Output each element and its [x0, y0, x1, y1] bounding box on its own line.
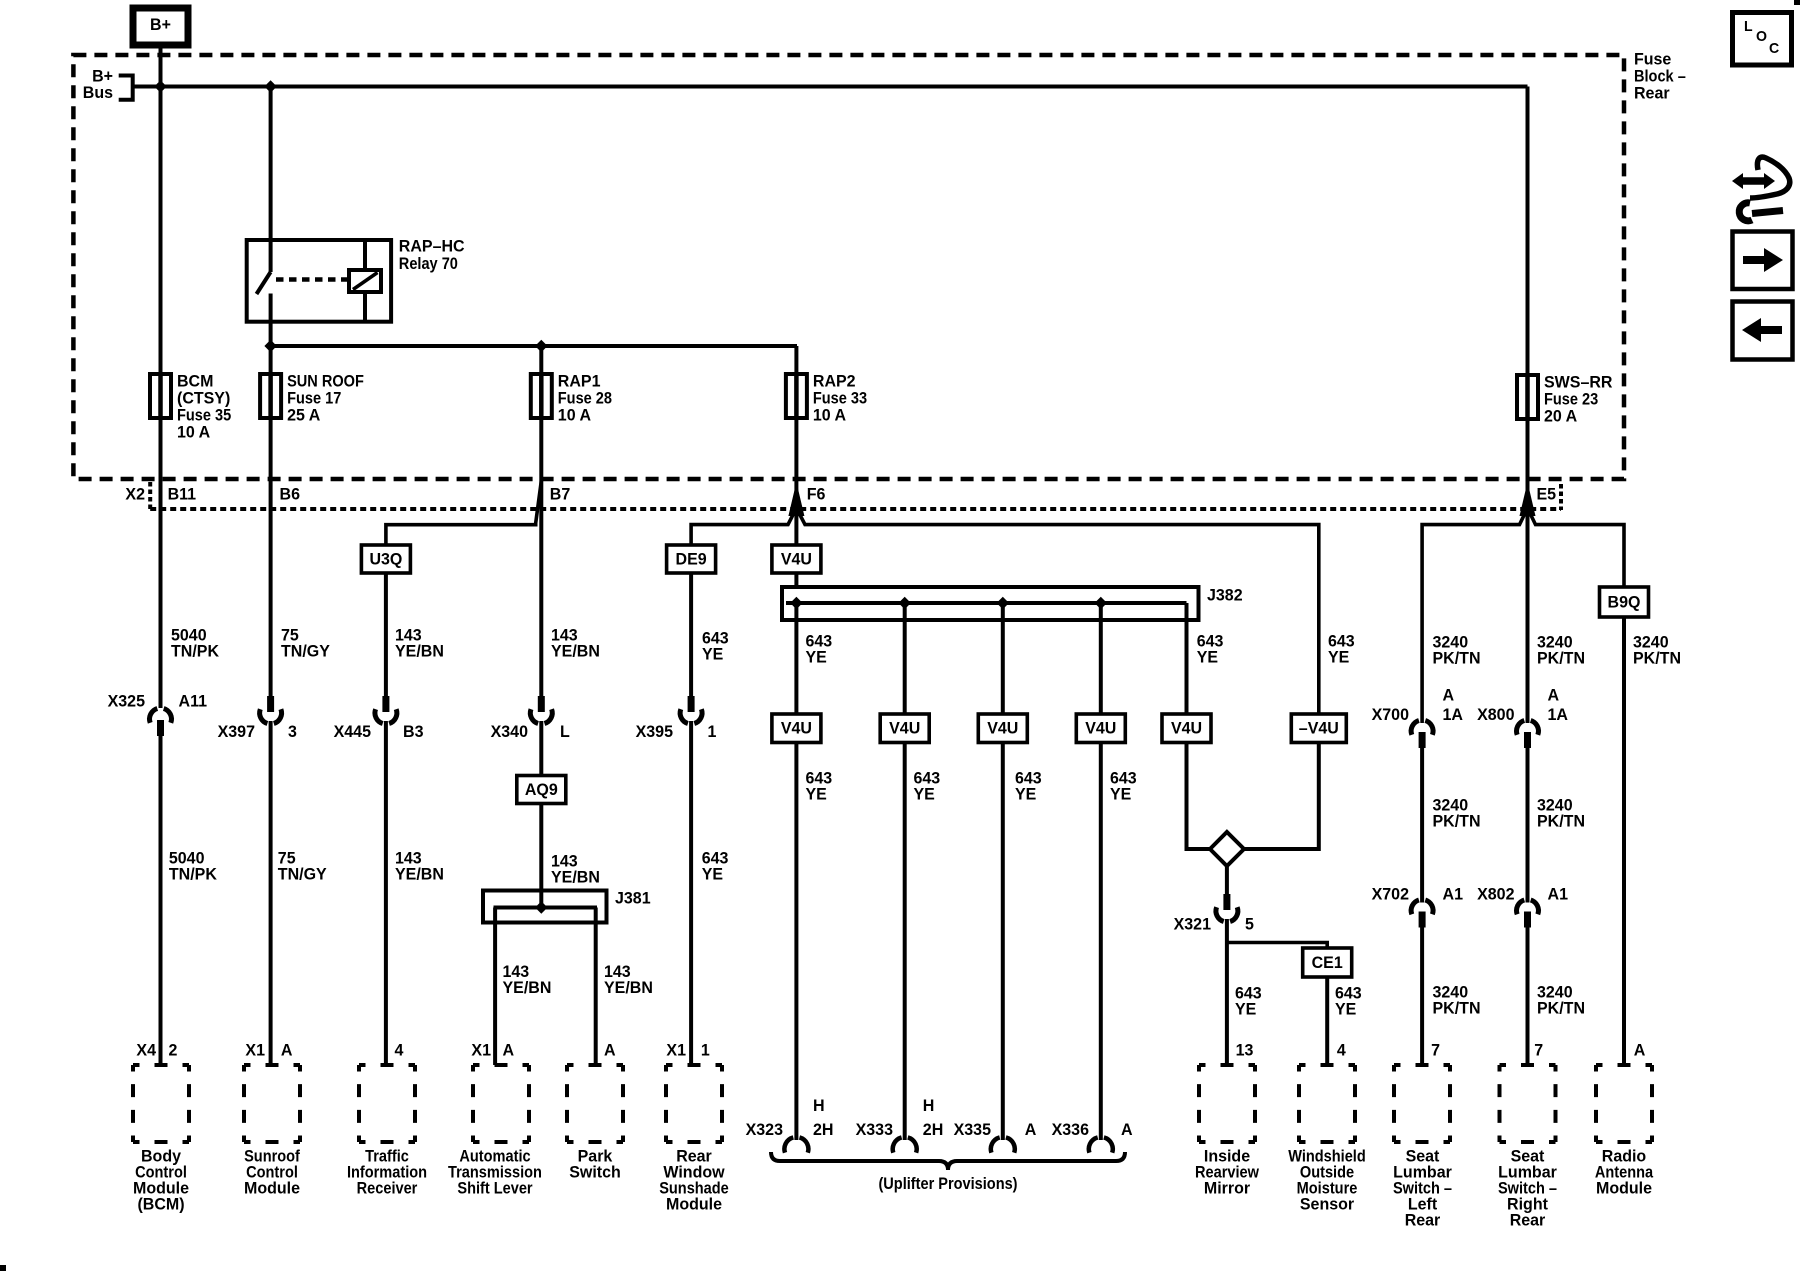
svg-text:YE: YE	[914, 784, 935, 803]
svg-text:A1: A1	[1548, 884, 1569, 903]
node F6 arrow	[788, 482, 804, 516]
fuse RAP1 Fuse 28 10A	[539, 374, 544, 418]
svg-text:X325: X325	[108, 691, 145, 710]
svg-text:A: A	[1025, 1120, 1037, 1139]
wire J382 to V4U row col3	[1001, 603, 1005, 714]
wire J382 to V4U row col4	[1099, 603, 1103, 714]
connector label AQ9	[517, 776, 566, 804]
svg-text:B7: B7	[550, 484, 571, 503]
svg-text:A: A	[1634, 1040, 1646, 1059]
connector label V4U (top)	[772, 545, 821, 573]
svg-text:YE/BN: YE/BN	[551, 867, 600, 886]
svg-text:X335: X335	[954, 1120, 991, 1139]
wire diamond to X321	[1225, 866, 1229, 894]
svg-text:3: 3	[288, 722, 297, 741]
wire branch to CE1	[1227, 943, 1327, 949]
svg-text:13: 13	[1236, 1040, 1254, 1059]
connector X2 band dotted line	[150, 507, 1561, 511]
svg-text:10 A: 10 A	[558, 405, 591, 424]
wire V4U col3 to X335	[1001, 743, 1005, 1141]
component Seat Lumbar Switch - Right Rear	[1500, 1065, 1556, 1142]
svg-text:V4U: V4U	[1171, 719, 1202, 738]
svg-text:V4U: V4U	[889, 719, 920, 738]
svg-text:1: 1	[701, 1040, 710, 1059]
svg-text:2H: 2H	[923, 1120, 944, 1139]
svg-text:Shift Lever: Shift Lever	[457, 1178, 533, 1197]
connector X700 pin A/1A	[1411, 721, 1419, 735]
svg-text:PK/TN: PK/TN	[1537, 998, 1585, 1017]
svg-text:B6: B6	[280, 484, 301, 503]
svg-text:YE: YE	[1335, 999, 1356, 1018]
svg-text:1: 1	[708, 722, 717, 741]
svg-text:YE/BN: YE/BN	[551, 641, 600, 660]
junction node feed/RAP1	[536, 341, 547, 352]
connector label DE9	[667, 545, 716, 573]
page corner mark	[1794, 0, 1800, 5]
svg-text:X445: X445	[334, 722, 371, 741]
svg-text:PK/TN: PK/TN	[1633, 648, 1681, 667]
svg-text:Sensor: Sensor	[1300, 1194, 1355, 1213]
connector X325 pin A11	[150, 709, 158, 723]
connector X340 pin L	[538, 696, 545, 712]
svg-text:Module: Module	[1596, 1178, 1652, 1197]
svg-text:A: A	[1548, 685, 1560, 704]
svg-text:YE: YE	[1015, 784, 1036, 803]
svg-text:Module: Module	[666, 1194, 722, 1213]
svg-text:YE/BN: YE/BN	[503, 978, 552, 997]
connector X336 pin A	[1089, 1137, 1098, 1152]
svg-text:1A: 1A	[1443, 705, 1464, 724]
svg-text:H: H	[923, 1096, 935, 1115]
svg-text:10 A: 10 A	[177, 422, 210, 441]
svg-text:CE1: CE1	[1312, 953, 1343, 972]
wire V4U col1 to X323	[794, 743, 798, 1141]
wire Fuse 33 to V4U	[794, 418, 798, 545]
svg-text:X1: X1	[245, 1040, 265, 1059]
svg-text:7: 7	[1431, 1040, 1440, 1059]
svg-text:L: L	[560, 722, 570, 741]
svg-text:X4: X4	[136, 1040, 156, 1059]
component Traffic Information Receiver	[359, 1065, 415, 1142]
wire feed to Fuse 28	[539, 346, 543, 374]
wire J381 to Automatic Transmission Shift Lever	[493, 908, 497, 1066]
svg-text:X800: X800	[1477, 705, 1514, 724]
fuse BCM (CTSY) Fuse 35 10A	[158, 374, 163, 418]
svg-text:YE: YE	[806, 647, 827, 666]
icon arrow right box	[1733, 232, 1793, 290]
wire Fuse 23 through E5 down	[1526, 419, 1530, 723]
wire X397 to Sunroof Control Module	[269, 721, 273, 1065]
svg-text:Rear: Rear	[1510, 1210, 1546, 1229]
svg-text:X395: X395	[636, 722, 673, 741]
connector X323 pin H/2H	[784, 1137, 793, 1152]
svg-text:YE: YE	[1197, 647, 1218, 666]
svg-text:RAP–HC: RAP–HC	[399, 236, 465, 255]
junction node bus/BCM	[155, 81, 166, 92]
svg-text:V4U: V4U	[987, 719, 1018, 738]
connector X395 pin 1	[688, 696, 695, 712]
svg-text:PK/TN: PK/TN	[1537, 811, 1585, 830]
connector X2 band right terminator	[1559, 484, 1563, 510]
svg-text:7: 7	[1534, 1040, 1543, 1059]
page bottom-left mark	[0, 1265, 6, 1271]
svg-text:O: O	[1756, 28, 1767, 45]
svg-text:X1: X1	[666, 1040, 686, 1059]
wire B+ drop to bus	[159, 55, 163, 87]
wire J381 to Park Switch	[594, 908, 598, 1066]
B+ Bus bracket	[119, 76, 133, 100]
svg-text:A: A	[1443, 685, 1455, 704]
svg-text:YE: YE	[1328, 647, 1349, 666]
wire B+ box to fuse block	[159, 45, 163, 55]
svg-text:YE/BN: YE/BN	[395, 864, 444, 883]
component Inside Rearview Mirror	[1199, 1065, 1255, 1142]
connector X2 band left terminator	[148, 482, 152, 510]
wire X445 to Traffic Information Receiver	[384, 721, 388, 1065]
power feed B+ box	[133, 8, 188, 45]
svg-text:V4U: V4U	[1085, 719, 1116, 738]
connector X397 pin 3	[267, 696, 274, 712]
connector X333 pin H/2H	[893, 1137, 902, 1152]
svg-text:YE: YE	[1235, 999, 1256, 1018]
svg-text:H: H	[813, 1096, 825, 1115]
svg-text:B11: B11	[168, 484, 197, 503]
svg-text:B+: B+	[150, 15, 171, 34]
wire bus to Fuse 35	[159, 87, 163, 375]
svg-text:DE9: DE9	[676, 549, 707, 568]
connector X702 pin A1	[1411, 900, 1419, 914]
wire Fuse 28 to X340	[539, 418, 543, 696]
svg-text:X321: X321	[1174, 914, 1211, 933]
svg-text:TN/GY: TN/GY	[281, 641, 331, 660]
svg-text:2H: 2H	[813, 1120, 834, 1139]
svg-text:YE: YE	[702, 864, 723, 883]
wire V4U col2 to X333	[903, 743, 907, 1141]
wire DE9 to X395	[689, 573, 693, 696]
svg-text:X323: X323	[746, 1120, 783, 1139]
wire V4U col5 to splice diamond	[1187, 743, 1211, 850]
connector label CE1	[1303, 948, 1352, 977]
connector X321 pin 5	[1223, 894, 1230, 910]
svg-text:25 A: 25 A	[287, 405, 320, 424]
svg-text:E5: E5	[1537, 484, 1557, 503]
wire feed to Fuse 33	[794, 346, 798, 374]
svg-text:20 A: 20 A	[1544, 406, 1577, 425]
wire F6 branch to DE9	[691, 508, 796, 545]
fuse SUN ROOF Fuse 17 25A	[268, 374, 273, 418]
component Sunroof Control Module	[244, 1065, 300, 1142]
svg-text:YE/BN: YE/BN	[604, 978, 653, 997]
component Automatic Transmission Shift Lever	[473, 1065, 529, 1142]
wire V4U to J382	[794, 573, 798, 587]
svg-text:X1: X1	[471, 1040, 491, 1059]
wire X395 to Rear Window Sunshade Module	[689, 721, 693, 1065]
svg-text:Relay 70: Relay 70	[399, 254, 458, 273]
svg-text:PK/TN: PK/TN	[1433, 648, 1481, 667]
wire V4U col4 to X336	[1099, 743, 1103, 1141]
wire X802 to Seat Lumbar Switch Right	[1526, 928, 1530, 1066]
brace (Uplifter Provisions)	[771, 1152, 1125, 1170]
wire X800 to X802	[1526, 748, 1530, 903]
svg-text:Rear: Rear	[1405, 1210, 1441, 1229]
wire F6 branch to -V4U	[796, 508, 1318, 714]
wire -V4U to splice diamond	[1244, 743, 1319, 850]
wire B9Q to Radio Antenna Module	[1622, 617, 1626, 1065]
connector X335 pin A	[991, 1137, 1000, 1152]
wire AQ9 to J381	[539, 804, 543, 908]
svg-text:PK/TN: PK/TN	[1537, 648, 1585, 667]
wire E5 branch to B9Q	[1528, 508, 1625, 587]
svg-text:YE: YE	[1110, 784, 1131, 803]
icon arrow left box	[1733, 302, 1793, 360]
wire X702 to Seat Lumbar Switch Left	[1420, 928, 1424, 1066]
wire X325 to BCM	[159, 736, 163, 1065]
connector X802 pin A1	[1517, 900, 1525, 914]
connector X800 pin A/1A	[1517, 721, 1525, 735]
svg-text:B9Q: B9Q	[1608, 592, 1641, 611]
connector label V4U row3	[978, 714, 1027, 743]
component Radio Antenna Module	[1596, 1065, 1652, 1142]
wire feed to RAP1/RAP2 fuses	[271, 344, 797, 348]
wire CE1 to Windshield Outside Moisture Sensor	[1325, 977, 1329, 1065]
svg-text:A11: A11	[179, 691, 208, 710]
connector X445 pin B3	[382, 696, 389, 712]
wire X700 to X702	[1420, 748, 1424, 903]
svg-text:C: C	[1769, 40, 1779, 57]
fuse block - rear outline (dashed)	[73, 55, 1624, 479]
svg-text:Receiver: Receiver	[357, 1178, 418, 1197]
connector label B9Q	[1600, 587, 1649, 617]
wire E5 branch to X700	[1422, 508, 1527, 723]
wire J382 to V4U row col2	[903, 603, 907, 714]
connector label -V4U	[1291, 714, 1346, 743]
svg-text:YE: YE	[702, 644, 723, 663]
svg-text:PK/TN: PK/TN	[1433, 811, 1481, 830]
wire U3Q to X445	[384, 573, 388, 696]
component Park Switch	[567, 1065, 623, 1142]
connector label V4U row2	[880, 714, 929, 743]
component Body Control Module (BCM)	[133, 1065, 189, 1142]
component Rear Window Sunshade Module	[666, 1065, 722, 1142]
icon LOC box	[1733, 13, 1792, 66]
svg-text:X340: X340	[491, 722, 528, 741]
svg-text:X802: X802	[1477, 884, 1514, 903]
svg-text:Mirror: Mirror	[1204, 1178, 1251, 1197]
connector label V4U row1	[772, 714, 821, 743]
svg-text:YE: YE	[806, 784, 827, 803]
svg-text:A: A	[281, 1040, 293, 1059]
svg-text:Bus: Bus	[83, 83, 113, 102]
junction node relay output/feed	[265, 341, 276, 352]
svg-text:YE/BN: YE/BN	[395, 641, 444, 660]
splice diamond node	[1210, 832, 1244, 866]
fuse SWS-RR Fuse 23 20A	[1525, 375, 1530, 419]
svg-text:PK/TN: PK/TN	[1433, 998, 1481, 1017]
svg-text:X700: X700	[1372, 705, 1409, 724]
svg-text:5: 5	[1245, 914, 1254, 933]
svg-text:X333: X333	[856, 1120, 893, 1139]
svg-text:J382: J382	[1207, 585, 1243, 604]
component Windshield Outside Moisture Sensor	[1299, 1065, 1355, 1142]
svg-text:A: A	[604, 1040, 616, 1059]
splice pack J382	[782, 587, 1199, 620]
node E5 arrow	[1520, 482, 1536, 516]
svg-text:F6: F6	[807, 484, 826, 503]
svg-text:A: A	[503, 1040, 515, 1059]
svg-text:X2: X2	[125, 484, 145, 503]
svg-text:1A: 1A	[1548, 705, 1569, 724]
wire bus to relay 70 switch	[269, 87, 273, 273]
svg-text:J381: J381	[615, 888, 651, 907]
svg-text:Switch: Switch	[569, 1162, 621, 1181]
wire X321 down to Inside Rearview Mirror	[1225, 919, 1229, 1065]
svg-text:AQ9: AQ9	[525, 780, 558, 799]
svg-text:TN/GY: TN/GY	[278, 864, 328, 883]
svg-text:–V4U: –V4U	[1299, 719, 1339, 738]
svg-text:X397: X397	[218, 722, 255, 741]
svg-text:V4U: V4U	[781, 549, 812, 568]
connector label U3Q	[361, 545, 410, 573]
wire bus to Fuse 23	[1526, 87, 1530, 376]
component Seat Lumbar Switch - Left Rear	[1394, 1065, 1450, 1142]
wire X340 to AQ9	[539, 721, 543, 776]
icon harness routing (arrows and wrench)	[1732, 157, 1790, 221]
svg-text:2: 2	[169, 1040, 178, 1059]
svg-text:A: A	[1121, 1120, 1133, 1139]
svg-text:TN/PK: TN/PK	[171, 641, 220, 660]
wire B+ bus horizontal	[161, 85, 1528, 89]
wire B7 branch to U3Q	[386, 481, 541, 545]
splice pack J381	[483, 891, 607, 923]
svg-text:Rear: Rear	[1634, 83, 1670, 102]
svg-text:(BCM): (BCM)	[137, 1194, 184, 1213]
fuse RAP2 Fuse 33 10A	[794, 374, 799, 418]
svg-text:10 A: 10 A	[813, 405, 846, 424]
wire J382 to V4U row col1	[794, 603, 798, 714]
svg-text:U3Q: U3Q	[369, 549, 402, 568]
relay RAP-HC Relay 70	[247, 240, 391, 322]
svg-text:Module: Module	[244, 1178, 300, 1197]
svg-text:4: 4	[1337, 1040, 1346, 1059]
svg-text:(Uplifter Provisions): (Uplifter Provisions)	[878, 1174, 1017, 1193]
svg-text:V4U: V4U	[781, 719, 812, 738]
wire Fuse 35 to X325	[159, 418, 163, 708]
junction node bus/relay	[265, 81, 276, 92]
svg-text:B3: B3	[403, 722, 424, 741]
svg-text:X336: X336	[1052, 1120, 1089, 1139]
connector label V4U row4	[1076, 714, 1125, 743]
wire Fuse 17 to X397	[269, 418, 273, 696]
svg-text:A1: A1	[1443, 884, 1464, 903]
svg-text:4: 4	[395, 1040, 404, 1059]
svg-text:TN/PK: TN/PK	[169, 864, 218, 883]
svg-text:L: L	[1744, 18, 1753, 35]
wire relay output down	[269, 322, 273, 374]
svg-text:X702: X702	[1372, 884, 1409, 903]
connector label V4U row5	[1162, 714, 1211, 743]
